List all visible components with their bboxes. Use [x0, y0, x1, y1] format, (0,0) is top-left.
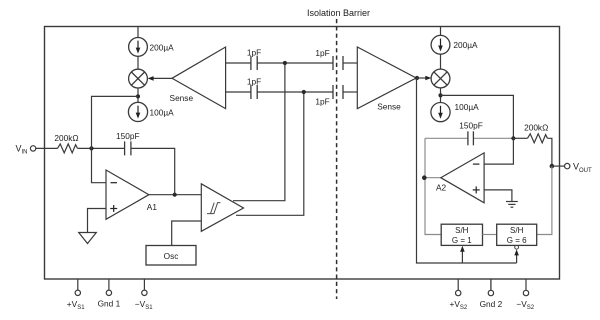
junction dot A1 output	[173, 193, 177, 197]
wire A2 output tip gray	[424, 177, 441, 179]
wire I3 to modulator M2	[440, 54, 442, 69]
svg-text:Isolation Barrier: Isolation Barrier	[307, 8, 370, 18]
svg-text:1pF: 1pF	[247, 48, 261, 58]
wire SH1 control arrow	[460, 246, 465, 263]
hysteresis symbol	[207, 203, 221, 214]
inverter bubble SH2	[515, 245, 519, 249]
wire resistor to cap C1	[78, 147, 125, 149]
terminal -VS2	[516, 279, 534, 311]
svg-text:100µA: 100µA	[455, 102, 480, 112]
capacitor C5 isolation 1pF bottom	[333, 85, 343, 99]
svg-text:150pF: 150pF	[459, 120, 483, 130]
wire junction down to A1 inverting input	[92, 148, 107, 182]
wire A1 output to modulator comparator	[149, 194, 201, 196]
terminal +VS1	[67, 279, 85, 311]
junction dot VOUT	[550, 164, 555, 169]
svg-text:1pF: 1pF	[315, 48, 329, 58]
svg-text:150pF: 150pF	[116, 131, 140, 141]
svg-text:S/H: S/H	[510, 226, 524, 235]
node VOUT terminal	[552, 162, 592, 174]
node B junction dot	[511, 136, 515, 140]
junction dot sense2 output	[415, 76, 419, 80]
node A junction dot input	[89, 146, 93, 150]
wire A2 feedback loop gray	[425, 138, 441, 234]
svg-text:Sense: Sense	[377, 102, 401, 112]
current source I4 100uA right	[431, 103, 450, 122]
svg-text:A2: A2	[436, 182, 447, 192]
A2 minus sign	[473, 163, 480, 165]
wire arrow sense2 to modulator M2	[417, 76, 431, 81]
wire cap C6 to node B gray	[474, 137, 514, 139]
modulator M1 multiplier circle	[129, 69, 148, 88]
sense amp right U4	[357, 47, 416, 109]
svg-text:200µA: 200µA	[453, 40, 478, 50]
wire A1 plus input to ground	[88, 209, 107, 233]
svg-text:G = 6: G = 6	[507, 236, 527, 245]
modulator M2 multiplier circle right	[431, 69, 450, 88]
A1 minus sign	[111, 182, 118, 184]
terminal -VS1	[135, 279, 153, 311]
capacitor C2 1pF top left	[251, 56, 257, 70]
terminal Gnd2	[480, 279, 503, 309]
svg-text:200kΩ: 200kΩ	[54, 133, 78, 143]
junction dot bottom wire	[302, 90, 306, 94]
wire SH2 control arrow	[514, 249, 519, 263]
wire sense1 bottom input	[226, 91, 251, 93]
junction dot left modulator	[136, 94, 140, 98]
wire top rail to current source I1	[137, 27, 139, 38]
capacitor C1 150pF input feedback	[125, 141, 131, 155]
wire C5 to sense2	[343, 91, 357, 93]
wire M1 to I2 with junction	[137, 88, 139, 102]
wire cap C1 to A1 output	[131, 148, 175, 194]
wire I1 to modulator M1	[137, 56, 139, 69]
wire SH1 to SH2 gray	[483, 234, 497, 236]
current source I3 200uA right	[431, 35, 450, 54]
svg-text:100µA: 100µA	[150, 107, 175, 117]
oscillator box Osc	[146, 246, 196, 266]
op-amp A2	[441, 153, 484, 203]
wire VIN to resistor	[36, 147, 58, 149]
wire C4 to sense2	[343, 62, 357, 64]
wire C3 to isolation cap C5	[257, 91, 333, 93]
wire comparator lower output	[236, 92, 304, 215]
wire sense1 top input	[226, 62, 251, 64]
outer package box	[45, 27, 560, 280]
isolation barrier dashed line	[336, 19, 338, 299]
current source I1 200uA	[129, 38, 148, 57]
wire R2 to VOUT node	[548, 138, 552, 166]
A2 plus sign	[473, 186, 480, 193]
svg-text:200kΩ: 200kΩ	[524, 123, 548, 133]
current source I2 100uA	[128, 102, 147, 121]
capacitor C6 150pF output	[468, 131, 474, 145]
junction dot top wire	[283, 61, 287, 65]
sense amp left U3	[172, 47, 226, 109]
junction dot right modulator	[438, 93, 442, 97]
comparator U2 schmitt trigger	[201, 184, 243, 232]
sample hold SH2 box	[497, 224, 537, 245]
svg-text:A1: A1	[147, 202, 158, 212]
svg-text:1pF: 1pF	[315, 97, 329, 107]
ground output common earth	[506, 202, 518, 208]
op-amp A1	[106, 170, 149, 219]
svg-text:1pF: 1pF	[247, 76, 261, 86]
svg-text:Sense: Sense	[170, 93, 194, 103]
node VIN terminal	[16, 144, 36, 156]
svg-text:S/H: S/H	[455, 226, 469, 235]
sample hold SH1 box	[441, 224, 482, 245]
wire A2 plus input to ground	[484, 190, 512, 202]
wire sense1 output arrow into modulator	[148, 76, 172, 81]
wire M2 junction to feedback node	[441, 95, 514, 138]
wire top rail to current source I3	[440, 27, 442, 36]
wire node B to resistor R2	[513, 137, 527, 139]
svg-text:Gnd 2: Gnd 2	[480, 299, 503, 309]
wire sense2 junction down to SH control	[417, 78, 517, 263]
wire VOUT node down to SH2 gray	[537, 166, 552, 234]
A1 plus sign	[110, 205, 117, 212]
capacitor C3 1pF bottom left	[251, 85, 257, 99]
wire Osc to comparator	[172, 221, 202, 246]
wire feedback top to cap C6 gray	[425, 137, 468, 139]
svg-text:Osc: Osc	[164, 251, 179, 261]
resistor R2 200k output	[528, 134, 548, 143]
wire A2 inverting input to node B	[484, 138, 513, 164]
junction dot A2 output	[422, 175, 427, 180]
capacitor C4 isolation 1pF top	[333, 56, 343, 70]
svg-text:Gnd 1: Gnd 1	[98, 299, 121, 309]
svg-text:G = 1: G = 1	[452, 236, 472, 245]
resistor R1 200k input	[58, 144, 78, 153]
wire M2 to I4 with junction	[440, 88, 442, 103]
terminal Gnd1	[98, 279, 121, 309]
wire comparator upper output	[233, 63, 285, 201]
wire C2 to isolation cap C4	[257, 62, 333, 64]
svg-text:200µA: 200µA	[150, 42, 175, 52]
wire modulator junction to input node	[92, 96, 139, 148]
terminal +VS2	[450, 279, 468, 311]
ground input common triangle	[79, 233, 97, 244]
